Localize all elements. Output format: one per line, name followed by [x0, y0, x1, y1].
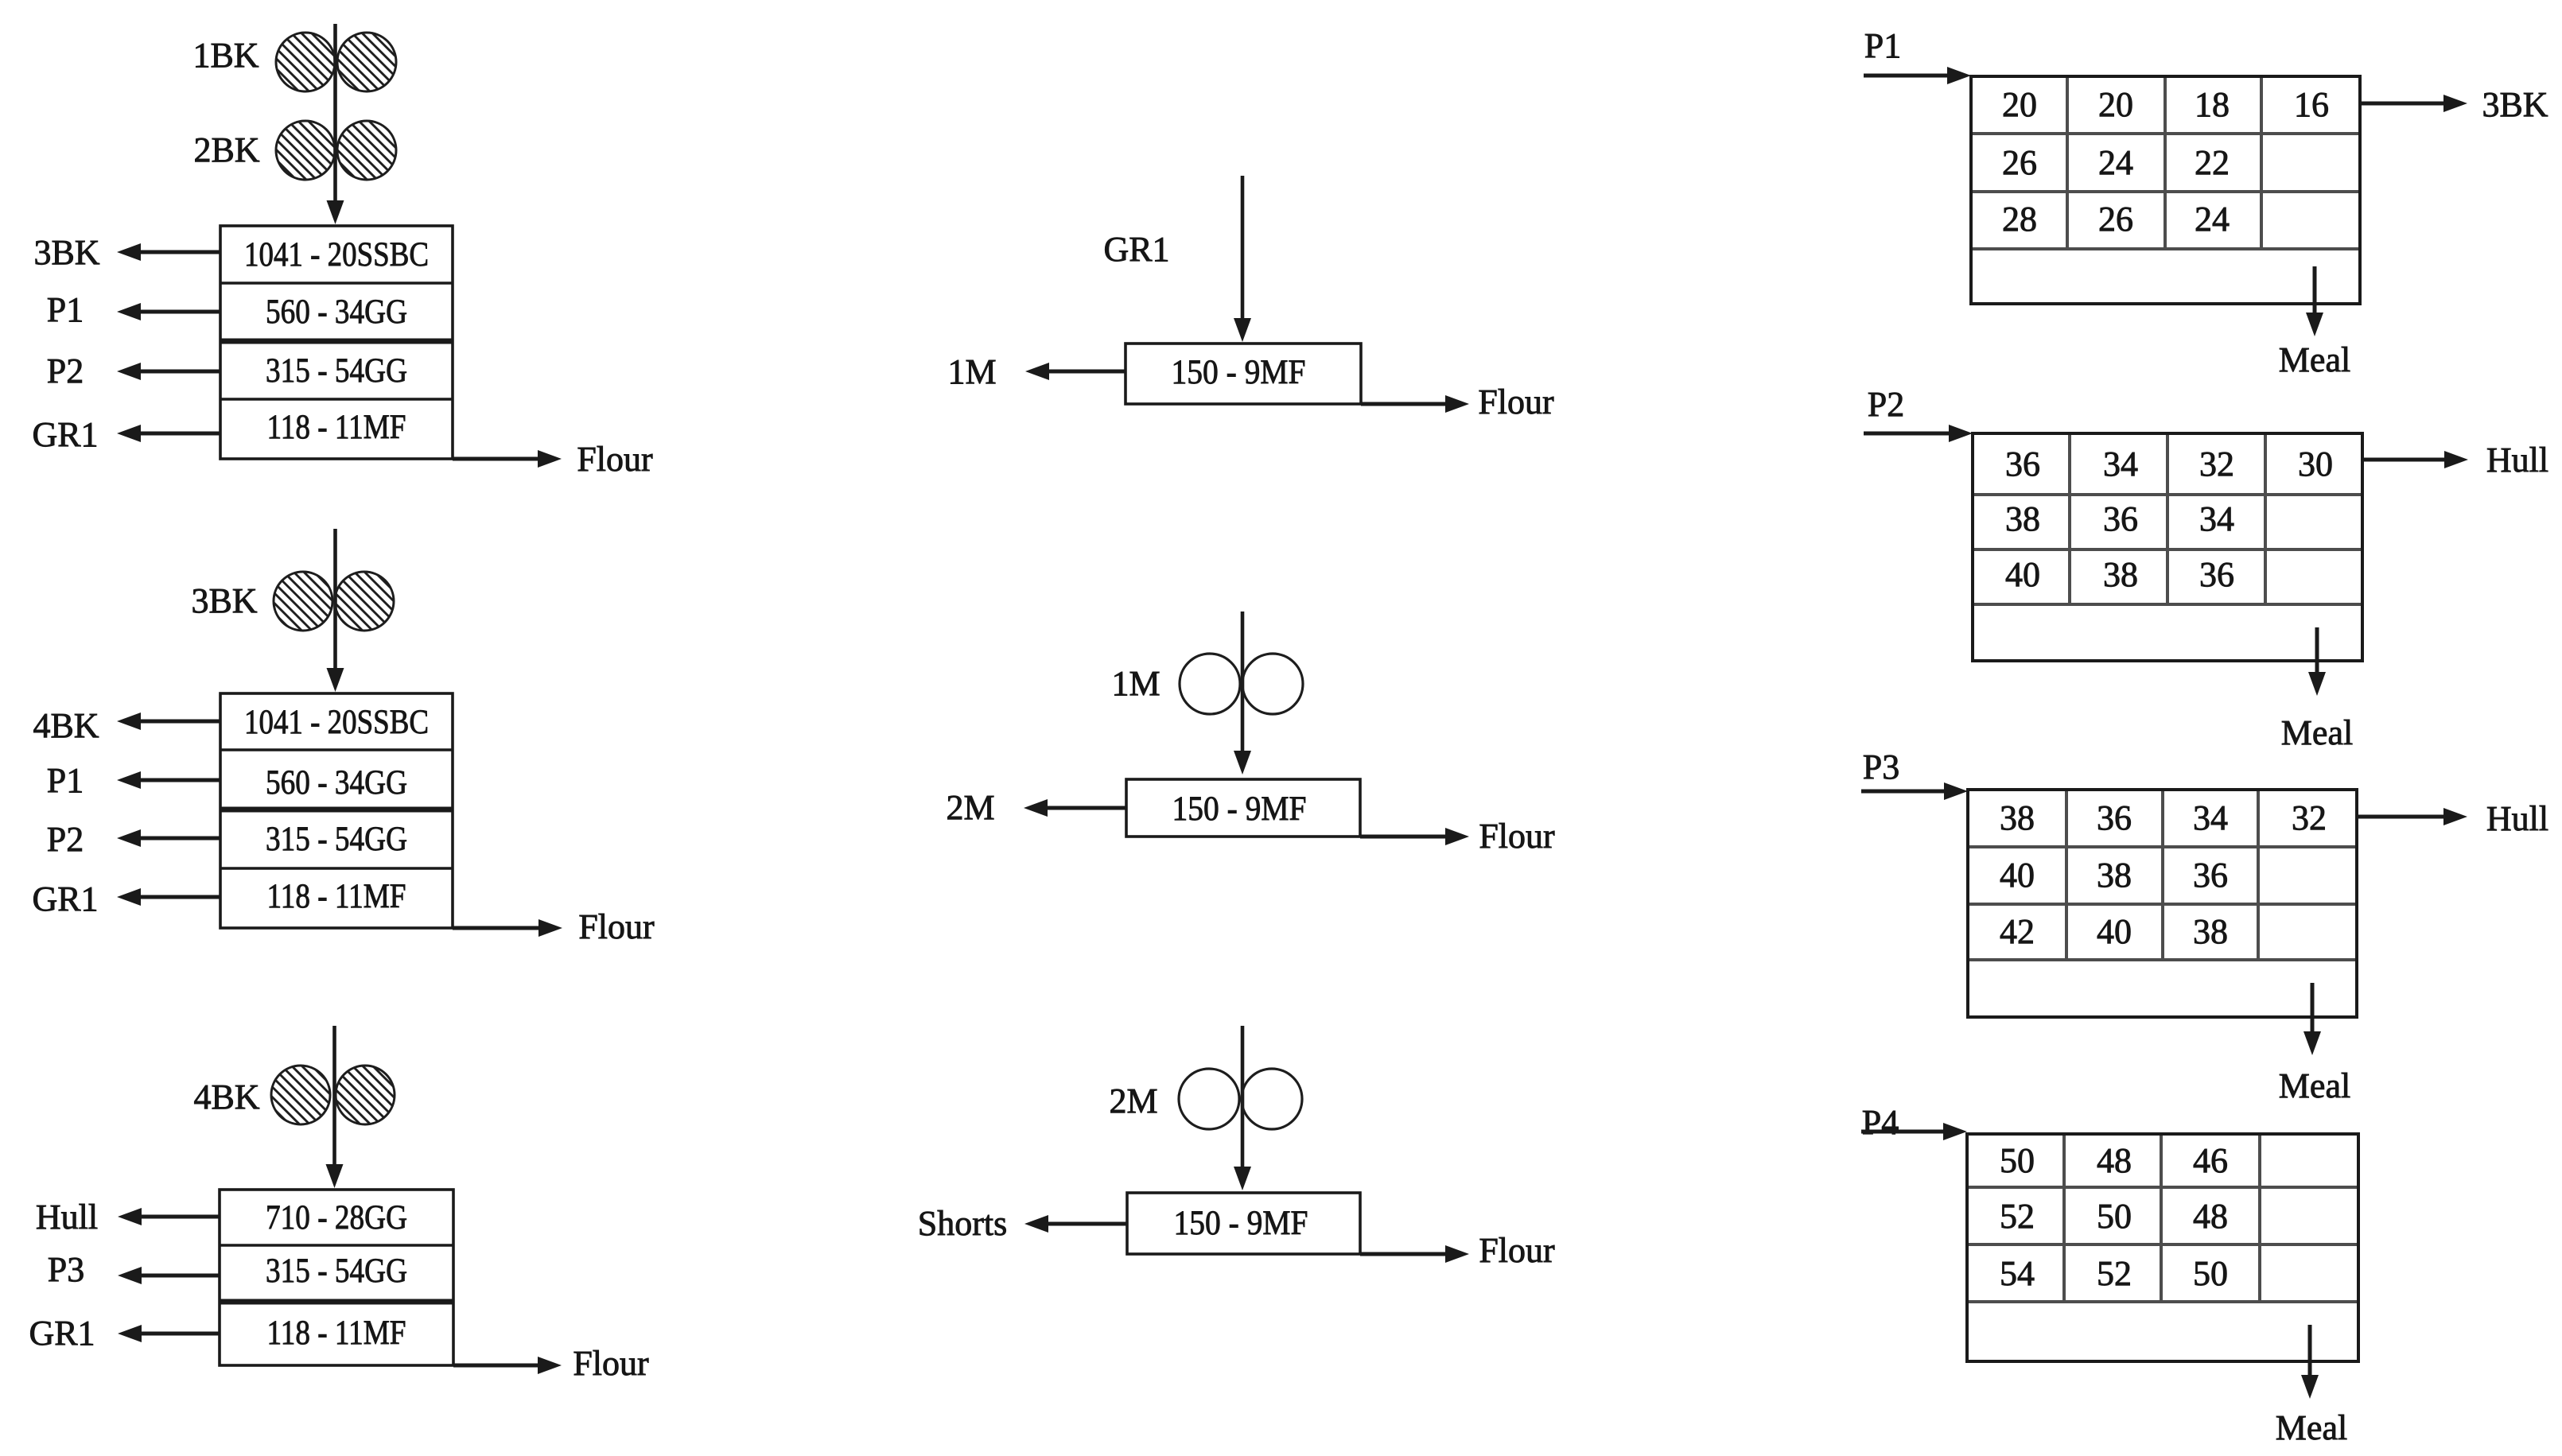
svg-text:26: 26: [2002, 143, 2037, 182]
svg-text:P1: P1: [1864, 26, 1901, 65]
svg-text:32: 32: [2199, 445, 2234, 483]
svg-text:315 - 54GG: 315 - 54GG: [266, 821, 407, 858]
svg-text:1041 - 20SSBC: 1041 - 20SSBC: [244, 704, 429, 741]
svg-text:38: 38: [2000, 798, 2035, 837]
svg-text:28: 28: [2002, 200, 2037, 239]
svg-text:38: 38: [2103, 555, 2138, 594]
svg-text:Shorts: Shorts: [918, 1204, 1007, 1243]
svg-text:40: 40: [2097, 912, 2132, 951]
svg-text:20: 20: [2002, 85, 2037, 124]
svg-text:50: 50: [2097, 1197, 2132, 1236]
svg-text:P3: P3: [1863, 747, 1899, 786]
svg-text:150 - 9MF: 150 - 9MF: [1172, 354, 1306, 391]
svg-text:P2: P2: [47, 351, 84, 390]
svg-text:P3: P3: [48, 1250, 84, 1289]
svg-text:1BK: 1BK: [192, 36, 259, 75]
svg-text:1M: 1M: [1111, 664, 1160, 703]
svg-text:36: 36: [2097, 798, 2132, 837]
svg-text:315 - 54GG: 315 - 54GG: [266, 1252, 407, 1290]
svg-text:3BK: 3BK: [2482, 85, 2548, 124]
svg-text:3BK: 3BK: [33, 233, 99, 272]
svg-text:48: 48: [2193, 1197, 2228, 1236]
svg-text:315 - 54GG: 315 - 54GG: [266, 352, 407, 390]
svg-text:Hull: Hull: [2486, 441, 2548, 480]
svg-text:38: 38: [2005, 499, 2040, 538]
svg-text:P2: P2: [1868, 385, 1904, 424]
svg-text:P2: P2: [47, 820, 84, 859]
svg-text:4BK: 4BK: [33, 706, 99, 745]
svg-text:48: 48: [2097, 1141, 2132, 1180]
svg-text:18: 18: [2195, 85, 2230, 124]
svg-text:Meal: Meal: [2279, 1066, 2350, 1105]
svg-text:20: 20: [2098, 85, 2133, 124]
svg-text:Flour: Flour: [1479, 1231, 1555, 1270]
svg-text:26: 26: [2098, 200, 2133, 239]
svg-text:36: 36: [2199, 555, 2234, 594]
svg-text:46: 46: [2193, 1141, 2228, 1180]
svg-text:150 - 9MF: 150 - 9MF: [1172, 790, 1307, 828]
svg-text:16: 16: [2294, 85, 2329, 124]
svg-text:P1: P1: [47, 290, 84, 329]
svg-text:24: 24: [2098, 143, 2133, 182]
svg-text:GR1: GR1: [1103, 230, 1169, 269]
svg-text:36: 36: [2005, 445, 2040, 483]
svg-text:Flour: Flour: [1478, 382, 1554, 421]
svg-text:36: 36: [2193, 856, 2228, 895]
svg-text:560 - 34GG: 560 - 34GG: [266, 293, 407, 331]
svg-text:Meal: Meal: [2281, 713, 2353, 752]
svg-text:34: 34: [2199, 499, 2234, 538]
svg-text:2M: 2M: [1109, 1081, 1157, 1120]
svg-text:54: 54: [2000, 1254, 2035, 1293]
svg-text:36: 36: [2103, 499, 2138, 538]
svg-text:GR1: GR1: [32, 415, 98, 454]
svg-text:42: 42: [2000, 912, 2035, 951]
svg-text:3BK: 3BK: [191, 581, 257, 620]
svg-text:32: 32: [2292, 798, 2327, 837]
svg-text:4BK: 4BK: [193, 1077, 259, 1116]
svg-text:50: 50: [2000, 1141, 2035, 1180]
svg-text:38: 38: [2193, 912, 2228, 951]
svg-text:50: 50: [2193, 1254, 2228, 1293]
svg-text:52: 52: [2097, 1254, 2132, 1293]
svg-text:2BK: 2BK: [193, 130, 259, 169]
svg-text:Flour: Flour: [1479, 817, 1555, 856]
svg-text:Meal: Meal: [2276, 1408, 2347, 1447]
svg-text:40: 40: [2005, 555, 2040, 594]
svg-text:118 - 11MF: 118 - 11MF: [267, 1314, 406, 1352]
svg-text:30: 30: [2298, 445, 2333, 483]
svg-text:Hull: Hull: [2486, 799, 2548, 838]
svg-text:34: 34: [2193, 798, 2228, 837]
svg-text:1041 - 20SSBC: 1041 - 20SSBC: [244, 236, 429, 274]
svg-text:GR1: GR1: [32, 879, 98, 918]
svg-text:Flour: Flour: [573, 1344, 649, 1383]
svg-text:38: 38: [2097, 856, 2132, 895]
svg-text:118 - 11MF: 118 - 11MF: [267, 878, 406, 915]
svg-text:P1: P1: [47, 761, 84, 800]
svg-text:118 - 11MF: 118 - 11MF: [267, 409, 406, 446]
svg-text:52: 52: [2000, 1197, 2035, 1236]
svg-text:Flour: Flour: [577, 440, 653, 479]
svg-text:P4: P4: [1862, 1103, 1899, 1142]
svg-text:24: 24: [2195, 200, 2230, 239]
svg-text:Flour: Flour: [578, 907, 655, 946]
svg-text:34: 34: [2103, 445, 2138, 483]
svg-text:1M: 1M: [947, 352, 996, 391]
svg-text:710 - 28GG: 710 - 28GG: [266, 1199, 407, 1237]
svg-text:Meal: Meal: [2279, 340, 2350, 379]
svg-text:40: 40: [2000, 856, 2035, 895]
svg-text:150 - 9MF: 150 - 9MF: [1174, 1205, 1308, 1242]
svg-text:22: 22: [2195, 143, 2230, 182]
svg-text:560 - 34GG: 560 - 34GG: [266, 764, 407, 802]
svg-text:Hull: Hull: [36, 1198, 98, 1237]
svg-text:GR1: GR1: [29, 1314, 95, 1353]
svg-text:2M: 2M: [946, 788, 994, 827]
